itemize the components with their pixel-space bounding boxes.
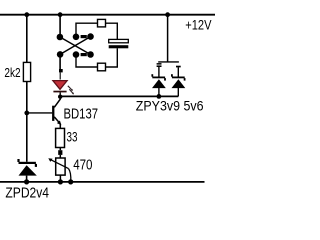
svg-text:33: 33 <box>67 129 78 144</box>
svg-text:470: 470 <box>73 158 92 174</box>
svg-text:ZPD2v4: ZPD2v4 <box>5 185 49 202</box>
svg-text:BD137: BD137 <box>64 106 99 122</box>
svg-text:2k2: 2k2 <box>4 65 20 80</box>
svg-text:+12V: +12V <box>185 18 211 33</box>
svg-text:ZPY3v9 5v6: ZPY3v9 5v6 <box>136 99 204 114</box>
